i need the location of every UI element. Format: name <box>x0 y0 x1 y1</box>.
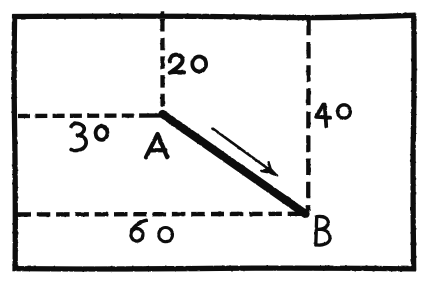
dashed vertical line at x=162 (20 line) <box>160 19 165 112</box>
dashed vertical line at x=308 (40 line) <box>306 19 311 211</box>
arrowhead <box>262 162 278 176</box>
tick above border at x=162 <box>160 11 164 14</box>
label 20 : digit 0 <box>192 57 206 72</box>
label 20 : digit 2 <box>170 55 184 73</box>
dashed horizontal line at y=116 (30 line) <box>18 113 161 118</box>
thick line A to B <box>163 114 306 214</box>
label 30 : digit 3 <box>71 123 86 150</box>
label 40 : digit 0 <box>338 105 351 118</box>
dashed horizontal line at y=214 (60 line) <box>18 212 307 217</box>
arrow shaft <box>213 129 271 171</box>
label 60 : digit 0 <box>159 228 173 242</box>
point label A <box>146 134 167 157</box>
point label B <box>316 216 330 245</box>
label 40 : digit 4 <box>316 105 330 127</box>
label 30 : digit 0 <box>96 126 108 140</box>
label 60 : digit 6 <box>131 220 146 233</box>
